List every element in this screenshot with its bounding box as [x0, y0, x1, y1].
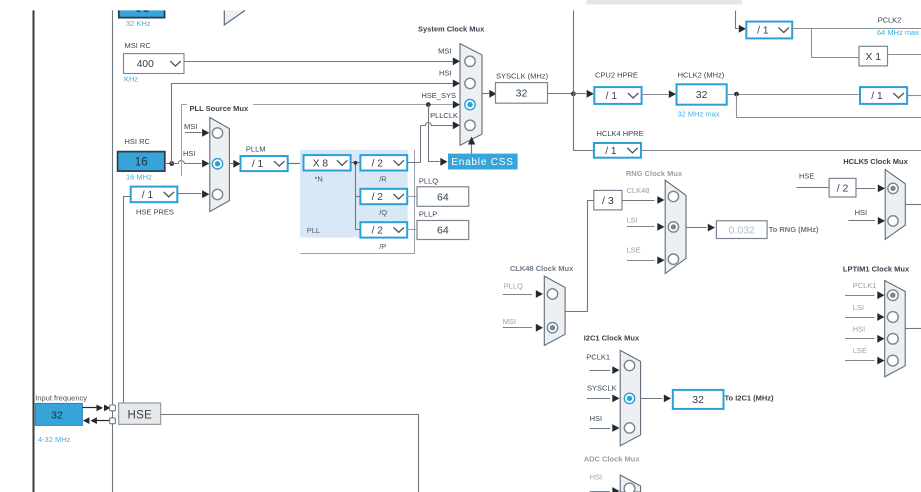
svg-text:HSI: HSI [855, 208, 868, 217]
svg-text:16: 16 [135, 157, 148, 169]
svg-text:SYSCLK: SYSCLK [587, 384, 617, 393]
wire /Q to PLLQ box [407, 196, 417, 198]
svg-text:CLK48 Clock Mux: CLK48 Clock Mux [510, 264, 574, 273]
wire HCLK2 branch down right [737, 95, 921, 118]
radio LPTIM1 HSI [887, 333, 898, 344]
svg-text:RNG Clock Mux: RNG Clock Mux [626, 169, 683, 178]
wire RNG mux to value box [686, 227, 707, 229]
svg-text:HSI: HSI [439, 68, 452, 77]
stub LSI into RNG mux [627, 226, 655, 228]
wire HCLK5 out to edge [905, 204, 921, 206]
radio I2C1 PCLK1 [624, 360, 634, 370]
wire /P to PLLP box [407, 229, 417, 231]
svg-text:0.032: 0.032 [729, 224, 755, 236]
svg-text:ADC Clock Mux: ADC Clock Mux [584, 454, 641, 463]
wire HSI RC output with junction [165, 163, 172, 165]
svg-text:X 1: X 1 [865, 51, 881, 63]
stub MSI into PLL mux [185, 132, 202, 134]
svg-text:64 MHz max: 64 MHz max [877, 28, 919, 37]
wire MSI RC to System Clock Mux [184, 61, 453, 63]
radio I2C1 HSI [624, 423, 634, 433]
radio HCLK5 HSE selected [888, 183, 898, 193]
wire CPU2 HPRE to HCLK2 [642, 94, 669, 96]
svg-text:X 8: X 8 [313, 158, 329, 169]
stub SYSCLK into I2C1 mux [587, 398, 610, 400]
dropdown PLL /P [360, 222, 407, 237]
wire HSE_SYS line (container top) to System Clock Mux [181, 104, 452, 106]
wire system mux to SYSCLK box [482, 93, 489, 95]
wire Enable CSS arrow up to mux [471, 144, 473, 154]
stub LSI into LPTIM1 mux [845, 317, 875, 319]
svg-text:PLLQ: PLLQ [419, 176, 438, 185]
wire PLL N to dividers [351, 162, 356, 164]
wire HSE riser to HSE PRES [124, 197, 131, 404]
wire PCLK2 line to edge [792, 28, 921, 30]
svg-text:/R: /R [379, 175, 387, 184]
svg-text:64: 64 [437, 225, 449, 237]
radio RNG LSI selected [668, 222, 678, 232]
value box I2C1 32 [673, 390, 724, 409]
svg-text:HSE: HSE [799, 172, 814, 181]
svg-text:HCLK4 HPRE: HCLK4 HPRE [597, 129, 644, 138]
svg-text:System Clock Mux: System Clock Mux [418, 25, 485, 34]
HSI RC blue box 16 [118, 152, 165, 172]
radio RNG CLK48 [668, 191, 678, 201]
svg-text:LSI: LSI [853, 303, 864, 312]
button Enable CSS [448, 154, 518, 170]
wire HSE output long line with elbow down [161, 415, 419, 492]
radio CLK48 MSI selected [547, 323, 557, 333]
clipped mux bottom triangle top-center [224, 10, 245, 25]
dropdown APB2 /1 [746, 22, 792, 39]
svg-text:/ 1: / 1 [252, 159, 264, 170]
wire PLLCLK riser /R to System Clock Mux with hop [408, 126, 421, 163]
value box RNG 0.032 [716, 221, 767, 239]
svg-text:/ 2: / 2 [372, 226, 384, 237]
svg-text:PCLK2: PCLK2 [878, 16, 902, 25]
stub HSI into ADC mux [590, 491, 610, 492]
HSE port square top [110, 405, 116, 411]
svg-text:MSI RC: MSI RC [125, 41, 152, 50]
svg-text:HSE: HSE [128, 409, 153, 421]
svg-text:MSI: MSI [438, 46, 451, 55]
dropdown PLLM /1 [241, 156, 288, 171]
wire I2C1 mux to value box [641, 398, 663, 400]
wire /2 to HCLK5 mux [856, 188, 875, 190]
mux RNG Clock Mux [665, 180, 686, 273]
wire HSE PRES to PLL mux [177, 193, 201, 195]
svg-text:HSI: HSI [853, 324, 866, 333]
toolbar remnant gray strip top [586, 0, 742, 4]
dropdown CPU2 HPRE /1 [594, 87, 641, 104]
mux LPTIM1 Clock Mux [885, 281, 906, 377]
wire APB1 out to edge [907, 95, 921, 97]
wire riser to APB2 prescaler clipped top [736, 11, 739, 29]
radio HCLK5 HSI [888, 216, 898, 226]
wire input to HSE with double arrows [82, 407, 96, 409]
wire HSI riser to System Clock Mux [172, 84, 453, 164]
wire PLLM to PLL N [288, 163, 304, 165]
junction dot PLL N [354, 161, 358, 165]
input frequency blue box 32 [35, 403, 82, 425]
svg-text:32: 32 [516, 88, 528, 100]
svg-text:Input frequency: Input frequency [35, 394, 87, 403]
svg-text:LSI: LSI [627, 215, 638, 224]
dropdown PLL *N X8 [304, 155, 351, 170]
wire CSS enable from HSE_SYS [429, 105, 440, 162]
svg-text:400: 400 [137, 59, 154, 70]
stub MSI into CLK48 mux [503, 327, 532, 329]
junction dot HSE_SYS to CSS [426, 102, 431, 107]
vertical rail x=112 (LSE/HSE column) [112, 10, 114, 492]
radio PLL mux MSI [212, 128, 222, 138]
wire HCLK2 output [727, 94, 860, 96]
dropdown APB1 /1 right [860, 87, 907, 104]
svg-text:HSE_SYS: HSE_SYS [421, 91, 456, 100]
svg-text:32: 32 [51, 409, 63, 421]
dropdown HSE PRES /1 [131, 187, 178, 203]
junction dot HSI [169, 161, 174, 166]
block HSE [119, 403, 161, 424]
mux PLL Source Mux [210, 118, 230, 212]
mux CLK48 Clock Mux [544, 276, 565, 345]
radio system PLLCLK [465, 120, 475, 130]
svg-text:/ 1: / 1 [606, 91, 618, 102]
wire SYSCLK riser clipped top [573, 10, 575, 93]
radio ADC HSI partial [624, 483, 635, 492]
mux ADC Clock Mux clipped [620, 475, 640, 492]
svg-text:PLLQ: PLLQ [504, 281, 523, 290]
svg-text:/ 1: / 1 [871, 91, 883, 102]
stub HSE to /2 box [797, 187, 830, 189]
wire SYSCLK rail down to HCLK4 [574, 94, 594, 151]
svg-text:HSE PRES: HSE PRES [136, 208, 174, 217]
PLL block light blue [300, 150, 408, 238]
svg-text:/ 1: / 1 [757, 26, 769, 37]
wire HSE to input with double arrows [96, 420, 110, 422]
svg-text:PLL Source Mux: PLL Source Mux [190, 104, 249, 113]
value box X 1 [859, 46, 888, 66]
svg-text:PCLK1: PCLK1 [586, 352, 610, 361]
radio PLL mux HSI selected [212, 159, 222, 169]
dropdown MSI RC 400 [124, 54, 185, 74]
svg-text:MSI: MSI [503, 317, 516, 326]
junction dot HCLK2 rail [734, 92, 739, 97]
svg-text:/ 2: / 2 [837, 182, 849, 194]
value box PLLP 64 [417, 221, 469, 240]
wire X1 out to edge [888, 54, 921, 56]
value box SYSCLK 32 [496, 83, 548, 104]
radio LPTIM1 LSE [887, 355, 898, 366]
svg-text:LSE: LSE [627, 245, 641, 254]
wire CLK48 riser from CLK48 mux to /3 [566, 201, 594, 312]
stub HSI into HCLK5 mux [848, 220, 875, 222]
label PLL Source Mux [187, 101, 253, 110]
LSI RC blue box clipped at top [118, 10, 165, 18]
wire HSI to PLL Source Mux with hop over box border [172, 161, 202, 164]
svg-text:/ 2: / 2 [372, 192, 384, 203]
value box PLLQ 64 [417, 187, 469, 207]
svg-text:LPTIM1 Clock Mux: LPTIM1 Clock Mux [843, 265, 910, 274]
wire SYSCLK to CPU2 HPRE [573, 93, 585, 95]
svg-text:HSI: HSI [183, 149, 196, 158]
svg-text:CLK48: CLK48 [627, 186, 650, 195]
svg-text:HCLK2 (MHz): HCLK2 (MHz) [678, 71, 725, 80]
PLL section container box [181, 105, 183, 177]
svg-text:PLLCLK: PLLCLK [430, 111, 458, 120]
stub PCLK1 into LPTIM1 mux [845, 295, 875, 297]
wire APB2 branch to X1 multiplier [812, 29, 860, 58]
svg-text:32 KHz: 32 KHz [126, 19, 151, 28]
svg-text:MSI: MSI [184, 122, 197, 131]
svg-text:PCLK1: PCLK1 [853, 281, 877, 290]
svg-text:32: 32 [692, 394, 704, 406]
stub PCLK1 into I2C1 mux [590, 370, 610, 372]
wire SYSCLK output rail [548, 93, 574, 95]
stub LSE into RNG mux [627, 260, 655, 262]
svg-text:/ 1: / 1 [142, 190, 154, 201]
stub PLLQ into CLK48 mux [503, 294, 532, 296]
svg-text:To RNG (MHz): To RNG (MHz) [769, 225, 819, 234]
svg-text:HSI RC: HSI RC [125, 137, 151, 146]
svg-text:16 MHz: 16 MHz [126, 172, 152, 181]
svg-text:/ 1: / 1 [605, 146, 617, 157]
svg-text:To I2C1 (MHz): To I2C1 (MHz) [725, 393, 775, 402]
dropdown HCLK4 HPRE /1 [594, 143, 641, 158]
wire HCLK4 output to edge [641, 150, 921, 152]
radio CLK48 PLLQ [547, 289, 557, 299]
svg-text:64: 64 [437, 191, 449, 203]
radio RNG LSE [668, 254, 678, 264]
stub HSI into LPTIM1 mux [845, 338, 875, 340]
svg-text:KHz: KHz [124, 75, 138, 84]
radio I2C1 SYSCLK selected [624, 393, 634, 403]
dropdown PLL /Q [360, 189, 407, 204]
svg-text:/ 3: / 3 [602, 195, 614, 207]
svg-text:32 MHz max: 32 MHz max [678, 109, 720, 118]
svg-text:HCLK5 Clock Mux: HCLK5 Clock Mux [843, 157, 908, 166]
svg-text:PLLM: PLLM [246, 144, 266, 153]
wire LPTIM1 out to edge [905, 328, 921, 330]
svg-text:/ 2: / 2 [372, 158, 384, 169]
junction dot SYSCLK rail [571, 91, 576, 96]
svg-text:32: 32 [696, 89, 708, 101]
radio system MSI [465, 56, 475, 66]
svg-text:SYSCLK (MHz): SYSCLK (MHz) [496, 71, 549, 80]
HSE port square bottom [110, 418, 116, 424]
value box HSE /2 [829, 178, 856, 197]
radio LPTIM1 PCLK1 selected [887, 290, 898, 301]
mux HCLK5 Clock Mux [885, 170, 905, 240]
radio LPTIM1 LSI [887, 312, 898, 323]
svg-text:Enable CSS: Enable CSS [451, 157, 513, 168]
radio PLL mux HSE [212, 189, 222, 199]
wire /3 to RNG mux [622, 200, 655, 202]
mux I2C1 Clock Mux [620, 350, 640, 445]
wire PLL mux to PLLM [229, 163, 233, 165]
stub LSE into LPTIM1 mux [845, 360, 875, 362]
svg-text:I2C1 Clock Mux: I2C1 Clock Mux [584, 333, 640, 342]
svg-text:/P: /P [379, 242, 386, 251]
svg-text:*N: *N [315, 175, 323, 184]
canvas left border line [33, 10, 35, 492]
radio system HSE_SYS selected [465, 99, 475, 109]
radio system HSI [465, 78, 475, 88]
value box /3 [594, 190, 622, 210]
svg-text:LSE: LSE [853, 346, 867, 355]
svg-text:PLL: PLL [307, 226, 320, 235]
svg-text:4-32 MHz: 4-32 MHz [38, 435, 71, 444]
svg-text:HSI: HSI [590, 414, 603, 423]
stub HSI into I2C1 mux [590, 428, 610, 430]
dropdown PLL /R [360, 155, 407, 170]
mux System Clock Mux [460, 44, 482, 146]
svg-text:PLLP: PLLP [419, 210, 437, 219]
value box HCLK2 32 [677, 84, 727, 104]
svg-text:HSI: HSI [590, 472, 603, 481]
svg-text:CPU2 HPRE: CPU2 HPRE [595, 71, 638, 80]
svg-text:/Q: /Q [379, 208, 387, 217]
